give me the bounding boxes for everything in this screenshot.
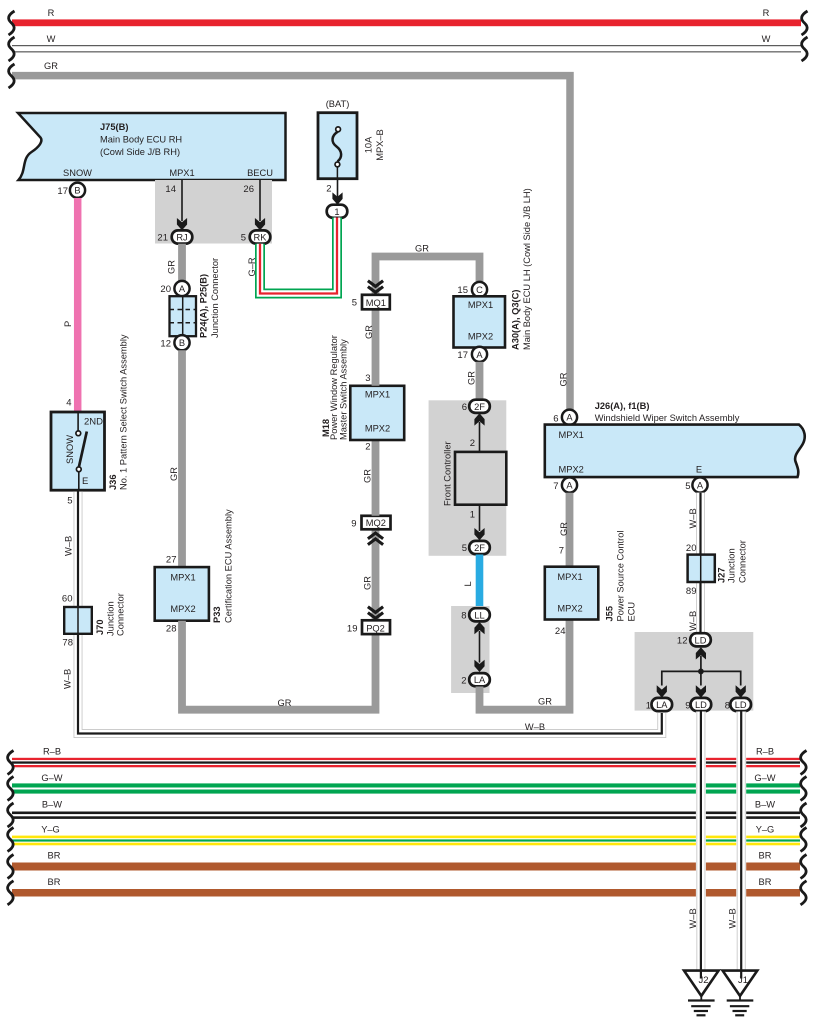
oval LD pin 8 — [725, 698, 751, 712]
svg-text:19: 19 — [347, 624, 358, 635]
svg-text:GR: GR — [169, 467, 179, 481]
oval 2F pin 6 — [462, 400, 490, 413]
svg-text:Junction: Junction — [727, 548, 737, 583]
svg-text:1: 1 — [470, 510, 475, 521]
wire GR from RJ to P24 pin A — [167, 244, 183, 282]
svg-text:A: A — [566, 413, 573, 423]
wire GR from P24 pin B to P33 pin 27 — [169, 350, 182, 567]
wire R bus — [12, 8, 801, 26]
svg-text:GR: GR — [44, 61, 58, 71]
svg-text:MPX1: MPX1 — [559, 430, 584, 440]
svg-text:Junction Connector: Junction Connector — [210, 258, 220, 338]
svg-text:GR: GR — [278, 698, 292, 708]
svg-text:L: L — [463, 581, 473, 586]
svg-text:GR: GR — [364, 325, 374, 339]
svg-text:LA: LA — [474, 675, 486, 685]
switch J36 No. 1 Pattern Select Switch Assembly — [51, 334, 129, 506]
windshield wiper switch J26(A), f1(B) — [545, 401, 805, 477]
svg-text:J70: J70 — [95, 619, 105, 635]
svg-text:P: P — [63, 321, 73, 327]
svg-text:Connector: Connector — [738, 540, 748, 583]
wire GR from A30 pin 17 to front controller 2F — [467, 362, 480, 399]
svg-text:G–W: G–W — [41, 773, 62, 783]
svg-text:2: 2 — [365, 442, 370, 453]
shaded area front controller — [429, 400, 507, 556]
svg-text:W–B: W–B — [688, 508, 698, 528]
wire Y-G bus — [12, 825, 800, 846]
wire W-B from LD pin 9 to ground J2 — [688, 712, 701, 971]
wire between LL and LA — [474, 622, 484, 672]
svg-text:MPX1: MPX1 — [468, 300, 493, 310]
svg-text:R–B: R–B — [43, 747, 61, 757]
break squiggles left bottom buses — [8, 751, 14, 775]
wire L blue from 2F to LL — [463, 555, 480, 609]
svg-text:P24(A), P25(B): P24(A), P25(B) — [199, 274, 209, 338]
svg-text:LL: LL — [474, 610, 484, 620]
svg-text:5: 5 — [685, 481, 690, 492]
junction connector P24(A), P25(B) — [160, 258, 220, 350]
oval LA pin 1 — [646, 698, 672, 712]
svg-text:Y–G: Y–G — [756, 825, 775, 835]
svg-text:GR: GR — [167, 260, 177, 274]
svg-text:GR: GR — [538, 697, 552, 707]
oval LL pin 8 — [461, 608, 490, 621]
break squiggles right bottom buses — [801, 751, 807, 775]
svg-text:E: E — [696, 465, 702, 475]
svg-text:W: W — [47, 34, 56, 44]
svg-text:J26(A), f1(B): J26(A), f1(B) — [595, 401, 650, 411]
break squiggles left top buses — [9, 11, 15, 35]
wire GR from MQ2 to PQ2 — [363, 529, 376, 621]
svg-text:MPX1: MPX1 — [557, 572, 582, 582]
wire R-B bus — [12, 747, 800, 768]
svg-text:MPX2: MPX2 — [365, 424, 390, 434]
svg-text:R: R — [48, 8, 55, 18]
splice MQ2 pin 9 — [351, 516, 390, 545]
oval 1 — [327, 205, 348, 218]
splice MQ1 pin 5 — [352, 281, 390, 310]
svg-text:C: C — [476, 285, 483, 295]
wire BR bus 2 — [12, 877, 800, 897]
wire P pink from B to J36 pin 4 — [63, 198, 78, 413]
svg-text:P33: P33 — [212, 606, 222, 623]
svg-text:G–W: G–W — [754, 773, 775, 783]
svg-text:No. 1 Pattern Select Switch As: No. 1 Pattern Select Switch Assembly — [119, 334, 129, 490]
svg-text:R: R — [763, 8, 770, 18]
wire pin 26 BECU to RK — [243, 180, 265, 230]
svg-text:89: 89 — [686, 586, 697, 597]
fuse 10A MPX-B (BAT) — [318, 99, 385, 179]
svg-text:E: E — [82, 476, 88, 487]
svg-text:1: 1 — [334, 207, 339, 217]
oval A pin 7 of J26 — [553, 477, 577, 492]
svg-text:5: 5 — [241, 233, 246, 244]
svg-text:GR: GR — [363, 469, 373, 483]
wire GR from P33 pin 28 to PQ2 pin 19 — [182, 621, 376, 710]
svg-text:2ND: 2ND — [84, 417, 103, 428]
svg-text:RJ: RJ — [176, 232, 187, 242]
oval LD pin 9 — [685, 698, 711, 712]
svg-text:9: 9 — [351, 519, 356, 530]
svg-text:GR: GR — [467, 371, 477, 385]
shaded area under J75 MPX1/BECU — [155, 180, 272, 244]
svg-text:GR: GR — [415, 244, 429, 254]
svg-text:BR: BR — [759, 877, 772, 887]
svg-text:20: 20 — [160, 284, 171, 295]
svg-text:2F: 2F — [474, 543, 485, 553]
svg-text:26: 26 — [243, 184, 254, 195]
oval 2F pin 5 — [462, 541, 490, 554]
svg-text:12: 12 — [677, 636, 688, 647]
wire W-B from J26 pin 5 to LD pin 12 — [688, 493, 701, 633]
svg-text:Power Window Regulator: Power Window Regulator — [329, 335, 339, 440]
svg-text:RK: RK — [254, 232, 268, 242]
wire pin 14 MPX1 to RJ — [165, 180, 187, 230]
svg-text:B: B — [74, 186, 80, 196]
svg-text:GR: GR — [559, 372, 569, 386]
svg-text:A: A — [476, 350, 483, 360]
svg-text:60: 60 — [62, 594, 73, 605]
svg-text:MPX–B: MPX–B — [375, 129, 385, 161]
certification ECU P33 — [155, 509, 234, 635]
svg-text:Main Body ECU RH: Main Body ECU RH — [100, 135, 182, 145]
svg-text:J36: J36 — [108, 474, 118, 490]
svg-text:W–B: W–B — [688, 611, 698, 631]
svg-text:W–B: W–B — [525, 722, 545, 732]
power source control ECU J55 — [545, 531, 637, 637]
svg-text:78: 78 — [62, 638, 73, 649]
svg-text:Junction: Junction — [106, 601, 116, 636]
svg-text:PQ2: PQ2 — [366, 623, 385, 633]
svg-text:21: 21 — [157, 233, 168, 244]
svg-text:J2: J2 — [698, 975, 708, 986]
wire BR bus 1 — [12, 851, 800, 871]
svg-text:W–B: W–B — [63, 669, 73, 689]
junction connector J70 — [62, 593, 126, 648]
wire branch from LD 12 to LA 1, LD 9, LD 8 — [657, 647, 746, 697]
svg-text:LD: LD — [695, 700, 707, 710]
connector J75(B) Main Body ECU RH — [18, 113, 286, 180]
pin 17 oval B of J75 — [57, 183, 85, 198]
svg-text:5: 5 — [352, 298, 357, 309]
svg-text:3: 3 — [365, 373, 370, 384]
wire GR from M18 pin 2 to MQ2 — [363, 440, 376, 516]
svg-text:LD: LD — [695, 635, 707, 645]
svg-text:Main Body ECU LH (Cowl Side J/: Main Body ECU LH (Cowl Side J/B LH) — [522, 188, 532, 350]
svg-text:5: 5 — [462, 543, 467, 554]
break squiggles right top buses — [802, 11, 808, 35]
svg-text:MQ1: MQ1 — [366, 298, 386, 308]
svg-text:MQ2: MQ2 — [366, 518, 386, 528]
svg-text:20: 20 — [686, 543, 697, 554]
main body ECU LH A30(A), Q3(C) — [454, 188, 533, 362]
svg-text:2: 2 — [470, 438, 475, 449]
svg-text:SNOW: SNOW — [63, 168, 92, 178]
junction connector J27 — [686, 540, 748, 597]
oval A pin 5 of J26 — [685, 477, 707, 492]
svg-text:GR: GR — [559, 522, 569, 536]
wire W bus — [12, 34, 801, 52]
svg-text:Connector: Connector — [116, 593, 126, 636]
oval LD pin 12 — [677, 633, 711, 646]
svg-text:Windshield Wiper Switch Assemb: Windshield Wiper Switch Assembly — [595, 413, 740, 423]
svg-text:B: B — [179, 338, 185, 348]
power window regulator master switch M18 — [321, 335, 404, 440]
wire GR from MQ1 to M18 pin 3 — [364, 309, 376, 386]
svg-text:1: 1 — [646, 701, 651, 712]
wire W-B from LD pin 8 to ground J1 — [728, 712, 742, 971]
wire GR from LA to J55 pin 24 — [480, 620, 570, 710]
wire GR from J26 pin 7 to J55 pin 7 — [559, 493, 570, 567]
oval RK pin 5 — [241, 230, 271, 243]
svg-text:BR: BR — [48, 851, 61, 861]
svg-text:MPX2: MPX2 — [468, 332, 493, 342]
svg-text:7: 7 — [559, 546, 564, 557]
svg-text:W–B: W–B — [728, 908, 738, 928]
svg-text:MPX1: MPX1 — [365, 390, 390, 400]
wire G-W bus — [12, 773, 800, 794]
svg-text:A: A — [566, 481, 573, 491]
svg-text:W–B: W–B — [64, 536, 74, 556]
svg-text:Certification ECU Assembly: Certification ECU Assembly — [224, 509, 234, 623]
wire front controller pin 1 to 2F pin 5 — [470, 505, 485, 541]
wire W-B from J36 pin 5 to oval LA pin 1 — [63, 490, 662, 734]
wire B-W bus — [12, 800, 800, 819]
svg-text:Master Switch Assembly: Master Switch Assembly — [339, 339, 349, 440]
splice PQ2 pin 19 — [347, 607, 390, 635]
svg-text:R–B: R–B — [756, 747, 774, 757]
svg-text:17: 17 — [457, 350, 468, 361]
svg-text:ECU: ECU — [627, 602, 637, 622]
svg-text:J1: J1 — [738, 975, 748, 986]
svg-text:BECU: BECU — [247, 168, 273, 178]
svg-text:W–B: W–B — [688, 908, 698, 928]
svg-text:LD: LD — [735, 700, 747, 710]
svg-text:4: 4 — [66, 398, 71, 409]
svg-text:MPX2: MPX2 — [557, 604, 582, 614]
svg-text:B–W: B–W — [755, 800, 775, 810]
svg-text:(BAT): (BAT) — [326, 99, 350, 109]
wire GR bus to J26 pin 6 — [12, 61, 570, 410]
svg-text:6: 6 — [462, 402, 467, 413]
svg-text:15: 15 — [457, 285, 468, 296]
svg-text:MPX1: MPX1 — [170, 573, 195, 583]
svg-text:Power Source Control: Power Source Control — [616, 531, 626, 622]
svg-text:17: 17 — [57, 186, 68, 197]
svg-text:J55: J55 — [605, 606, 615, 622]
svg-text:W: W — [762, 34, 771, 44]
svg-text:A: A — [179, 284, 186, 294]
svg-text:A30(A), Q3(C): A30(A), Q3(C) — [511, 290, 521, 350]
svg-text:27: 27 — [166, 555, 177, 566]
svg-text:24: 24 — [555, 626, 566, 637]
svg-text:BR: BR — [48, 877, 61, 887]
shaded area LD branch — [635, 632, 754, 711]
svg-text:7: 7 — [553, 481, 558, 492]
svg-text:28: 28 — [166, 624, 177, 635]
svg-text:LA: LA — [656, 700, 668, 710]
svg-text:(Cowl Side J/B RH): (Cowl Side J/B RH) — [100, 147, 180, 157]
svg-text:G–R: G–R — [247, 257, 257, 276]
svg-text:2F: 2F — [474, 402, 485, 412]
svg-text:12: 12 — [160, 339, 171, 350]
svg-text:14: 14 — [165, 184, 176, 195]
svg-text:2: 2 — [326, 184, 331, 195]
svg-text:B–W: B–W — [42, 800, 62, 810]
wire GR from MQ1 up and over to A30 pin 15 — [376, 244, 480, 297]
wire G-R from RK to fuse oval 1 — [247, 218, 337, 294]
ground J2 — [684, 970, 719, 1015]
svg-text:Y–G: Y–G — [41, 825, 60, 835]
svg-text:A: A — [697, 481, 704, 491]
wire front controller pin 2 to 2F — [470, 413, 485, 452]
svg-text:MPX1: MPX1 — [169, 168, 194, 178]
shaded area LL LA — [451, 606, 489, 693]
svg-text:2: 2 — [461, 675, 466, 686]
svg-text:BR: BR — [759, 851, 772, 861]
svg-text:10A: 10A — [364, 136, 374, 153]
oval RJ pin 21 — [157, 230, 192, 243]
svg-text:6: 6 — [553, 414, 558, 425]
svg-text:8: 8 — [461, 611, 466, 622]
svg-text:SNOW: SNOW — [65, 435, 75, 464]
svg-text:J75(B): J75(B) — [100, 122, 128, 132]
svg-text:MPX2: MPX2 — [559, 465, 584, 475]
front controller box — [443, 441, 507, 506]
svg-text:Front Controller: Front Controller — [443, 441, 453, 506]
svg-text:GR: GR — [363, 576, 373, 590]
svg-text:J27: J27 — [717, 567, 727, 583]
oval LA pin 2 — [461, 673, 490, 686]
ground J1 — [723, 970, 758, 1015]
svg-text:MPX2: MPX2 — [170, 604, 195, 614]
wire fuse pin 2 to oval 1 — [326, 178, 342, 205]
svg-text:5: 5 — [67, 496, 72, 507]
